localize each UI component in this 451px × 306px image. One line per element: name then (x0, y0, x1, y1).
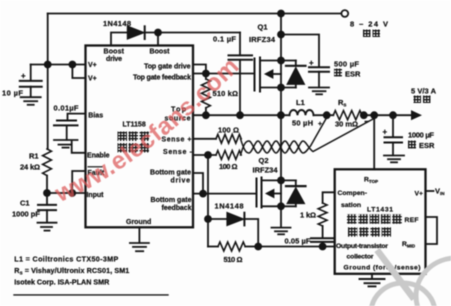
wire Fault pin (72, 171, 85, 193)
node Rs right (360, 111, 368, 119)
wire sense- kelvin wavy (241, 119, 375, 156)
capacitor 0.1uF boost (229, 33, 253, 116)
resistor 100ohm lower (216, 151, 241, 160)
wire V+ pin2 (72, 65, 85, 79)
resistor 510ohm (208, 242, 258, 251)
wire Input pin (47, 192, 86, 194)
node Rtop tap (370, 111, 378, 119)
ground Q2 source (272, 206, 291, 234)
resistor 1k (318, 203, 327, 226)
wire collector row (258, 246, 335, 248)
node Q1 top rail (277, 10, 285, 18)
diode Q2 body (281, 180, 306, 206)
svg-text:www.elecfans.com: www.elecfans.com (50, 53, 244, 209)
node 1N4148 anode (204, 215, 212, 223)
wire left drop to V+ (47, 14, 49, 65)
node Q1 drain (277, 57, 285, 65)
wire bottom gate feedback to Q2 gate (193, 193, 257, 195)
label driver CJK (118, 143, 150, 153)
wire sense+ pin (193, 138, 216, 140)
node 1000uF tap (389, 111, 397, 119)
wire sense- drop (207, 155, 209, 247)
label half bridge CJK (118, 132, 150, 142)
node R1/C1/Input (43, 189, 51, 197)
node Q2 source (277, 202, 285, 210)
ground 1000uF (384, 156, 404, 163)
op-amp U2 LT1431 box (335, 169, 426, 273)
wire Rtop vertical (373, 115, 375, 169)
wire top source row (193, 114, 290, 116)
wire sense+ kelvin wavy (241, 118, 327, 154)
wire REF to Rmid loop (426, 217, 438, 244)
ground LT1158 (130, 227, 149, 251)
watermark gray (371, 250, 451, 306)
wire notes rule (14, 294, 168, 296)
wire top rail (48, 13, 342, 15)
node 510k top (202, 70, 210, 78)
node V+ junction A (44, 61, 52, 69)
node V+ junction B (69, 61, 77, 69)
label Fault (88, 167, 105, 177)
node L1/Rs (323, 111, 331, 119)
diode Q1 body (281, 61, 306, 88)
capacitor 500uF (281, 35, 329, 88)
label 1000uF low ESR (408, 141, 435, 151)
label output CJK (414, 96, 422, 104)
wire L1 to Rs (314, 114, 334, 116)
wire Vin pin (426, 190, 434, 192)
node Input/Fault (68, 189, 76, 197)
resistor 100ohm upper (216, 134, 241, 143)
capacitor 1000uF (385, 115, 403, 155)
capacitor C1 1000pF (38, 193, 56, 223)
node bottom gate (199, 190, 207, 198)
label programmable CJK (347, 214, 402, 224)
node 0.1uF bottom (236, 111, 244, 119)
wire sense- pin (193, 154, 216, 156)
input terminal 8-24V (341, 10, 348, 17)
node Q2 drain (277, 177, 285, 185)
resistor Rs 30mohm (333, 111, 362, 120)
resistor R1 24k (43, 65, 52, 194)
wire Boost pin stub (157, 33, 159, 46)
capacitor 0.05uF (311, 226, 335, 247)
capacitor 0.01uF bias (54, 114, 86, 140)
node 510k bottom (202, 111, 210, 119)
node boost (154, 29, 162, 37)
wire compensation (323, 192, 335, 203)
ground LT1431 (360, 274, 385, 287)
wire Enable pin (72, 142, 86, 153)
node sense- (204, 151, 212, 159)
ground 0.01uF (54, 140, 78, 148)
wire top gate feedback to Q1 gate (193, 73, 255, 75)
ground C1 (38, 223, 57, 231)
transistor Q1 IRFZ34 (255, 14, 282, 116)
wire output arrow (412, 111, 421, 120)
wire output (361, 114, 412, 116)
diode 1N4148 bottom (208, 212, 258, 246)
node switch (277, 111, 285, 119)
wire bottom gate drive (193, 173, 203, 194)
node 510/0.05 (254, 243, 262, 251)
node 0.05uF (319, 243, 327, 251)
wire V+ rail (31, 64, 86, 66)
diode 1N4148 top (127, 26, 240, 39)
label 500uF low ESR (334, 69, 361, 79)
resistor 510k (201, 74, 210, 116)
node Q1 source (277, 84, 285, 92)
node Q1 cap tap (277, 31, 285, 39)
label minus sense (365, 121, 369, 123)
wire Boost drive stub (111, 33, 128, 46)
op-amp U1 LT1158 box (86, 46, 194, 228)
ground 10uF (21, 97, 41, 105)
capacitor 10uF (20, 65, 42, 97)
wire top gate drive (193, 65, 206, 74)
label input CJK (363, 30, 371, 38)
inductor L1 (290, 110, 314, 115)
ground 500uF (309, 88, 329, 95)
transistor Q2 IRFZ34 (257, 115, 282, 207)
label reference CJK (348, 227, 391, 236)
